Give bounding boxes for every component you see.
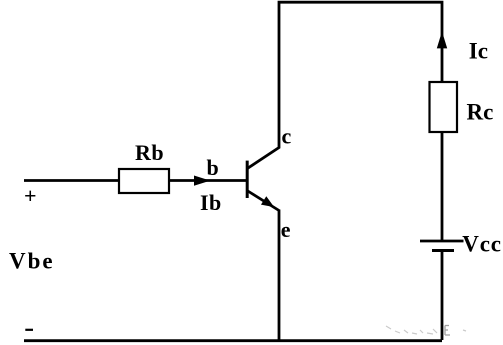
svg-text:e: e [281,217,291,242]
svg-text:b: b [207,155,219,180]
svg-text:Vcc: Vcc [462,231,501,256]
svg-text:Rb: Rb [135,140,164,165]
svg-text:Ib: Ib [200,190,222,215]
svg-text:+: + [24,183,37,208]
svg-text:Rc: Rc [467,99,494,124]
svg-text:Ic: Ic [469,38,488,63]
svg-text:Vbe: Vbe [9,249,55,274]
svg-text:c: c [282,124,292,149]
